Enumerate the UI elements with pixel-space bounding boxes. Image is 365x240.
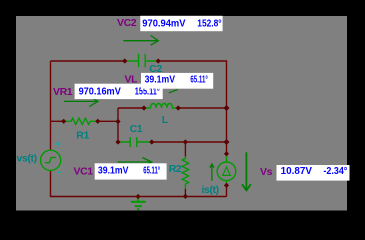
svg-text:10.87V: 10.87V [281,166,313,177]
svg-text:65.11°: 65.11° [190,75,207,86]
svg-text:39.1mV: 39.1mV [98,166,129,177]
svg-text:Vs: Vs [260,166,273,178]
svg-text:R2: R2 [169,163,182,175]
svg-text:is(t): is(t) [202,184,219,196]
svg-text:970.94mV: 970.94mV [142,19,186,30]
svg-text:VC2: VC2 [117,17,137,29]
svg-text:65.11°: 65.11° [143,166,160,177]
svg-text:VC1: VC1 [74,166,94,178]
svg-text:VR1: VR1 [53,86,73,98]
svg-text:970.16mV: 970.16mV [79,87,121,98]
svg-text:R1: R1 [76,130,89,142]
svg-text:39.1mV: 39.1mV [145,75,176,86]
svg-text:152.8°: 152.8° [197,19,221,30]
svg-text:-2.34°: -2.34° [323,166,347,177]
svg-text:vs(t): vs(t) [17,152,37,164]
svg-text:C1: C1 [130,123,143,135]
svg-text:L: L [162,114,169,126]
